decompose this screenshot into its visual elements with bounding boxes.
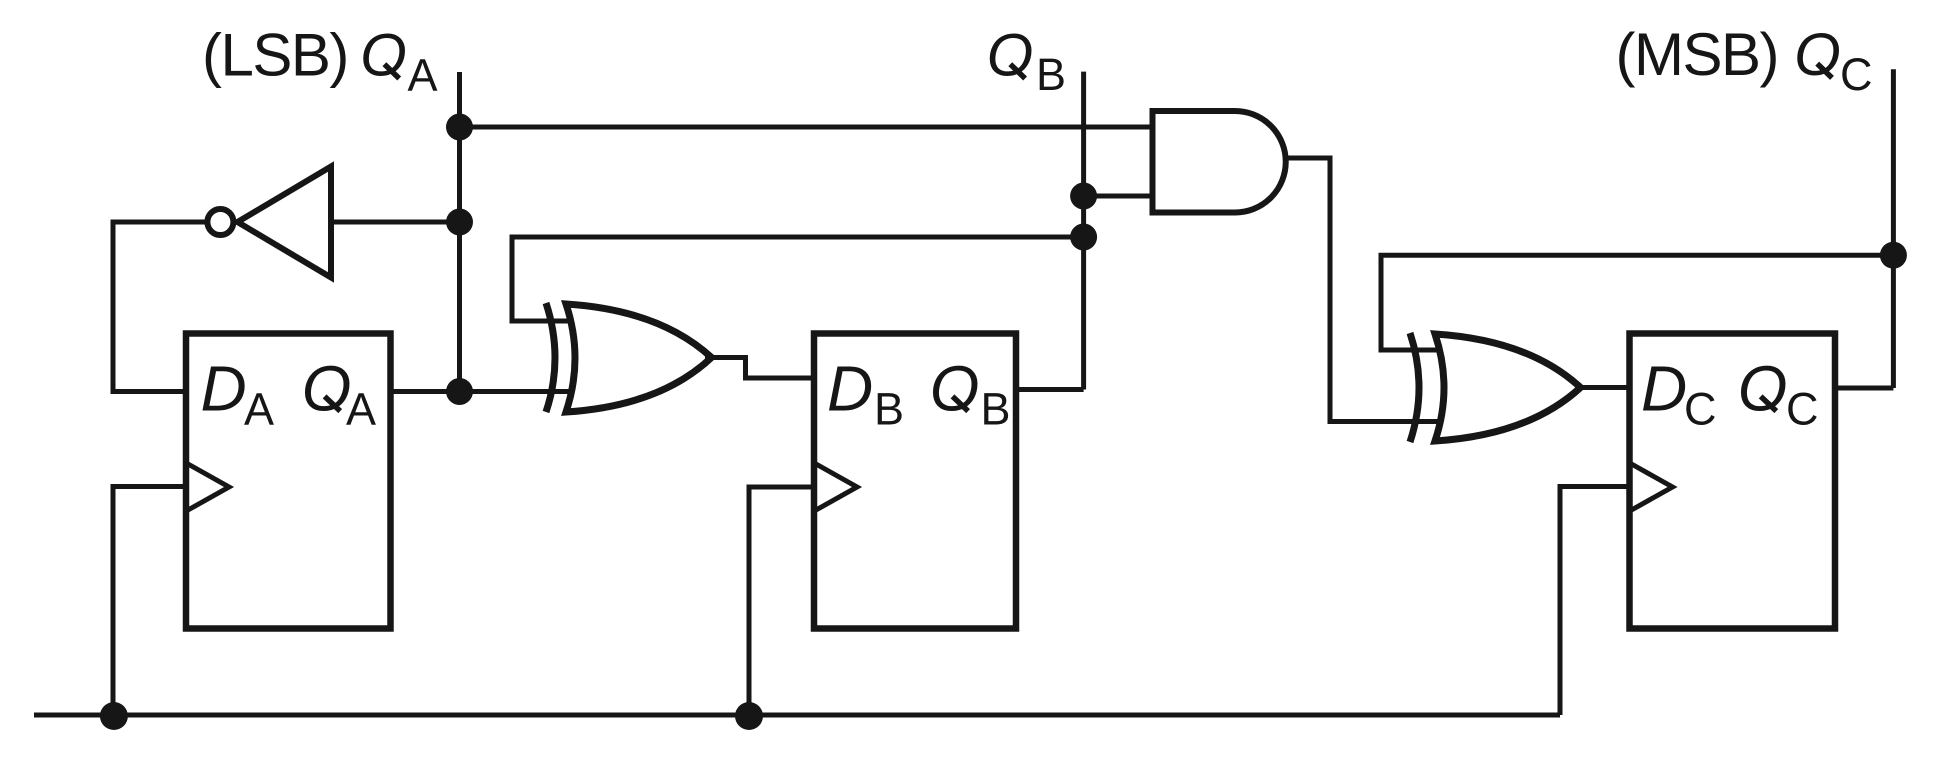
node junction QC feedback	[1880, 242, 1907, 269]
node junction QB-feedback	[1070, 224, 1097, 251]
svg-text:(MSB): (MSB)	[1616, 21, 1778, 88]
wire XOR2 output to DC input	[1576, 385, 1630, 390]
svg-text:B: B	[874, 384, 904, 435]
node junction QA-AND	[446, 114, 473, 141]
inverter U1 triangle	[238, 167, 332, 278]
wire clock to flip-flop A	[113, 487, 186, 716]
node junction clock B	[735, 702, 763, 730]
svg-text:C: C	[1786, 384, 1819, 435]
svg-text:B: B	[981, 384, 1011, 435]
svg-text:A: A	[244, 384, 274, 435]
svg-text:O: O	[930, 353, 980, 425]
wire clock to flip-flop C	[1560, 487, 1630, 716]
flip-flop C box	[1630, 334, 1836, 629]
svg-text:O: O	[987, 22, 1034, 89]
wire clock bottom rail	[34, 713, 1560, 718]
svg-text:C: C	[1684, 384, 1717, 435]
wire QB to AND bottom input	[1084, 194, 1153, 199]
wire XOR1 output to DB input	[705, 358, 814, 379]
flip-flop B clock triangle	[816, 464, 857, 510]
node junction QA output	[446, 378, 473, 405]
flip-flop C clock triangle	[1632, 464, 1673, 510]
wire QA output row	[391, 389, 575, 394]
wire QC vertical net	[1891, 69, 1896, 388]
wire QC output	[1835, 386, 1893, 391]
svg-text:O: O	[1794, 21, 1841, 88]
wire QA to inverter input	[334, 220, 460, 225]
wire QA to AND top input	[460, 125, 1153, 130]
svg-text:O: O	[360, 22, 407, 89]
xor gate X2 body	[1435, 334, 1581, 441]
wire clock to flip-flop B	[749, 487, 814, 715]
svg-text:D: D	[827, 353, 873, 425]
svg-text:C: C	[1840, 49, 1873, 100]
wire QB output to vertical net	[1016, 387, 1084, 392]
svg-text:D: D	[201, 353, 247, 425]
flip-flop A clock triangle	[188, 464, 229, 510]
wire inverter output to DA input	[113, 222, 208, 392]
svg-text:O: O	[1738, 353, 1788, 425]
inverter U1 bubble	[207, 209, 233, 235]
wire QB feedback to XOR1 top input	[512, 237, 1084, 321]
xor gate X1 body	[566, 304, 712, 412]
svg-text:O: O	[302, 353, 352, 425]
flip-flop A box	[186, 334, 391, 629]
svg-text:B: B	[1036, 49, 1066, 100]
wire AND output to XOR2 bottom input	[1284, 158, 1441, 422]
svg-text:A: A	[346, 384, 376, 435]
svg-text:A: A	[408, 50, 438, 101]
flip-flop B box	[814, 334, 1016, 629]
svg-text:D: D	[1641, 353, 1687, 425]
wire QB vertical net	[1081, 72, 1086, 390]
wire QA vertical net	[457, 72, 462, 392]
xor gate X1 extra arc	[546, 303, 555, 412]
svg-text:(LSB): (LSB)	[202, 22, 348, 89]
xor gate X2 extra arc	[1410, 333, 1419, 442]
node junction QB-AND	[1070, 183, 1097, 210]
node junction QA-inverter	[446, 209, 473, 236]
wire QC feedback row	[1381, 255, 1894, 350]
node junction clock A	[100, 702, 128, 730]
and gate G1	[1153, 111, 1286, 213]
